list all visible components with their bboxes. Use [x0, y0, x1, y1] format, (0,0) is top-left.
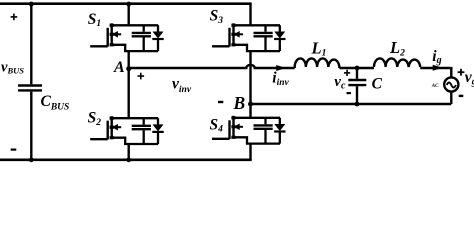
svg-text:S1: S1 — [88, 11, 101, 29]
svg-text:vinv: vinv — [172, 76, 192, 95]
svg-text:AC: AC — [431, 84, 439, 89]
svg-text:B: B — [233, 93, 246, 113]
svg-text:S4: S4 — [210, 116, 224, 134]
svg-text:S3: S3 — [210, 7, 224, 25]
svg-text:A: A — [113, 59, 125, 76]
svg-text:L2: L2 — [389, 38, 405, 58]
svg-text:vg: vg — [465, 69, 474, 88]
svg-text:vc: vc — [334, 74, 346, 91]
svg-text:iinv: iinv — [272, 70, 289, 88]
svg-text:S2: S2 — [88, 109, 102, 127]
svg-text:C: C — [372, 75, 383, 92]
svg-text:L1: L1 — [311, 38, 327, 58]
svg-text:CBUS: CBUS — [41, 93, 70, 112]
svg-text:ig: ig — [432, 48, 441, 66]
svg-text:vBUS: vBUS — [1, 60, 24, 76]
